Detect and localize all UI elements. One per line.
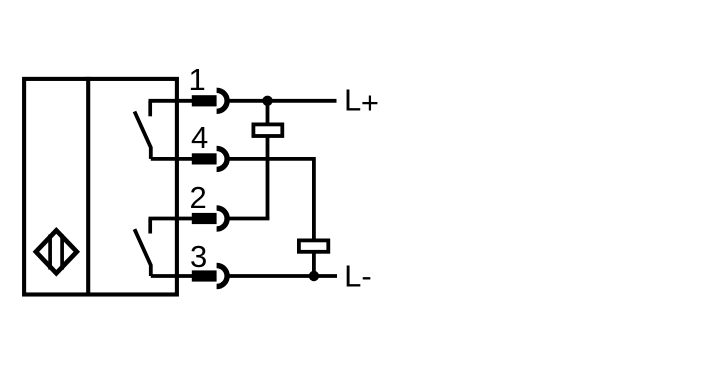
sensor body outline <box>24 79 177 295</box>
node junction on L- wire <box>309 271 319 281</box>
svg-text:+: + <box>361 85 379 120</box>
sensor body divider <box>86 77 90 297</box>
node junction on L+ wire <box>262 96 272 106</box>
svg-text:4: 4 <box>191 120 208 155</box>
wire pin3 left <box>151 274 192 278</box>
svg-text:2: 2 <box>190 180 207 215</box>
wire R1 to pin2 wire <box>266 138 270 219</box>
wire pin4 right with bend down to R2 <box>229 159 314 241</box>
pin 2 connector <box>192 208 227 229</box>
pin 4 connector <box>192 148 227 169</box>
wire R2 to L- wire <box>312 253 316 276</box>
pin 3 connector <box>192 266 227 287</box>
wire pin1 left <box>149 99 193 103</box>
switch S2 blade <box>135 229 151 276</box>
wire junction to load R1 <box>266 101 270 125</box>
svg-text:3: 3 <box>190 239 207 274</box>
svg-text:1: 1 <box>189 62 206 97</box>
load resistor R2 <box>299 240 328 251</box>
wire pin2 right <box>229 217 269 221</box>
switch S2 fixed contact <box>148 219 152 234</box>
pin 1 connector <box>192 90 227 111</box>
wire pin2 left <box>149 217 193 221</box>
svg-text:L: L <box>344 83 361 118</box>
wire pin1 to L+ <box>229 99 337 103</box>
switch S1 blade <box>135 112 151 159</box>
inductive sensor symbol <box>36 230 77 273</box>
switch S1 fixed contact <box>148 101 152 117</box>
wire pin3 to L- <box>229 274 337 278</box>
wire pin4 left <box>151 157 192 161</box>
svg-text:L-: L- <box>344 259 372 294</box>
load resistor R1 <box>253 124 282 136</box>
